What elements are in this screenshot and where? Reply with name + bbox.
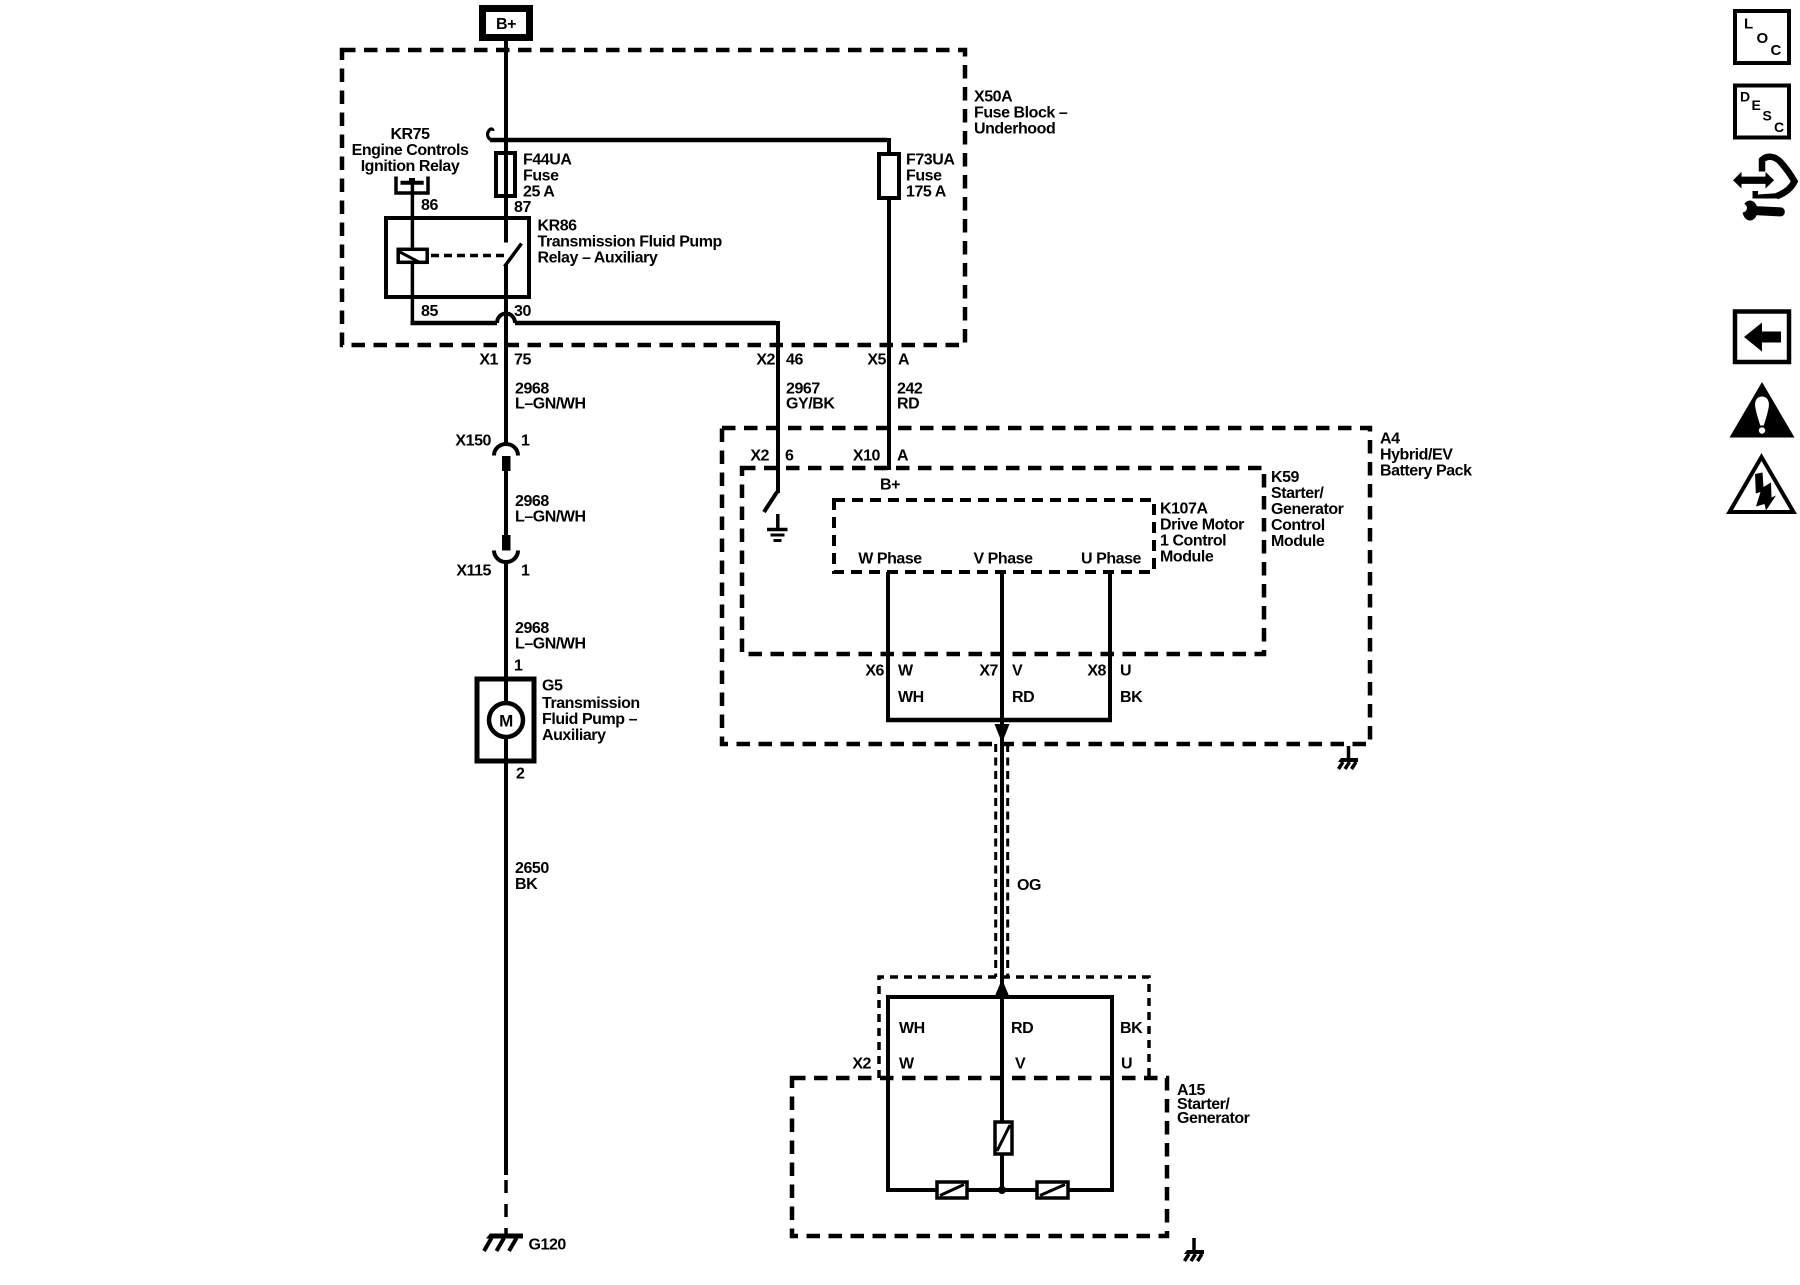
svg-text:Module: Module xyxy=(1160,549,1214,566)
svg-text:KR86: KR86 xyxy=(538,218,578,235)
wire X150 to X115 xyxy=(504,471,508,535)
svg-text:G5: G5 xyxy=(542,678,563,695)
ground switch blade in K59 xyxy=(764,492,777,512)
svg-text:C: C xyxy=(1774,119,1784,135)
arrow up from OG cable xyxy=(995,979,1010,997)
svg-text:L–GN/WH: L–GN/WH xyxy=(515,509,586,526)
svg-text:Fuse: Fuse xyxy=(523,168,559,185)
ground at A4 box xyxy=(1338,746,1358,769)
svg-text:1: 1 xyxy=(521,563,530,580)
svg-text:W: W xyxy=(898,663,914,680)
svg-text:Engine Controls: Engine Controls xyxy=(352,142,469,159)
svg-text:1 Control: 1 Control xyxy=(1160,533,1226,550)
svg-text:B+: B+ xyxy=(496,16,516,33)
svg-text:BK: BK xyxy=(515,876,538,893)
svg-text:M: M xyxy=(499,712,513,731)
connector A15 X2 dashed box xyxy=(879,977,1149,1078)
wire label 2968 L-GN/WH (2) xyxy=(515,493,586,526)
relay KR86 switch blade xyxy=(505,244,522,267)
icon DESC box xyxy=(1735,86,1789,138)
winding W component xyxy=(937,1182,967,1198)
svg-text:U: U xyxy=(1121,1056,1132,1073)
icon LOC box xyxy=(1735,11,1789,63)
svg-text:Battery Pack: Battery Pack xyxy=(1380,463,1472,480)
ground at A15 box xyxy=(1184,1238,1204,1261)
svg-text:U Phase: U Phase xyxy=(1081,551,1142,568)
wire X115 to motor G5 xyxy=(504,563,508,704)
svg-text:Auxiliary: Auxiliary xyxy=(542,727,606,744)
svg-text:BK: BK xyxy=(1120,689,1143,706)
svg-text:X150: X150 xyxy=(455,433,491,450)
wire W phase down xyxy=(886,572,890,722)
svg-text:Transmission: Transmission xyxy=(542,695,640,712)
svg-text:X2: X2 xyxy=(852,1056,871,1073)
svg-text:L–GN/WH: L–GN/WH xyxy=(515,636,586,653)
wire down to fuse F73UA xyxy=(887,138,891,154)
wire label 2967 GY/BK xyxy=(786,381,835,413)
svg-text:V: V xyxy=(1012,663,1023,680)
svg-text:6: 6 xyxy=(785,448,794,465)
connector X115 xyxy=(456,535,530,580)
svg-text:1: 1 xyxy=(521,433,530,450)
generator A15 solid box xyxy=(888,997,1112,1190)
svg-text:Control: Control xyxy=(1271,517,1325,534)
winding V component xyxy=(995,1122,1012,1154)
icon back arrow box xyxy=(1735,312,1789,363)
relay KR86 box xyxy=(386,218,529,297)
svg-text:Module: Module xyxy=(1271,533,1325,550)
svg-text:WH: WH xyxy=(898,689,924,706)
svg-text:Relay – Auxiliary: Relay – Auxiliary xyxy=(538,250,658,267)
connector row X7 V xyxy=(979,663,1023,680)
svg-text:46: 46 xyxy=(786,352,803,369)
connector row X6 W xyxy=(865,663,914,680)
wire label 2650 BK xyxy=(515,860,549,893)
wire U phase down xyxy=(1108,572,1112,722)
svg-text:E: E xyxy=(1752,97,1761,113)
wire label 2968 L-GN/WH (3) xyxy=(515,620,586,653)
icon data link arrows and wrench xyxy=(1733,157,1795,221)
svg-text:RD: RD xyxy=(1011,1020,1033,1037)
node X50A label xyxy=(974,89,1068,138)
connector X150 xyxy=(455,433,530,472)
svg-text:Drive Motor: Drive Motor xyxy=(1160,517,1244,534)
svg-text:Ignition Relay: Ignition Relay xyxy=(361,158,460,175)
svg-text:75: 75 xyxy=(514,352,531,369)
B+ terminal xyxy=(483,9,530,38)
relay KR86 coil-contact dashed link xyxy=(431,254,507,258)
svg-text:A4: A4 xyxy=(1380,431,1400,448)
svg-text:A: A xyxy=(897,448,909,465)
svg-text:X50A: X50A xyxy=(974,89,1013,106)
connector row X2 46 xyxy=(756,352,803,369)
svg-text:Hybrid/EV: Hybrid/EV xyxy=(1380,447,1453,464)
svg-text:Fluid Pump –: Fluid Pump – xyxy=(542,711,638,728)
fuse F44UA xyxy=(496,152,572,201)
wire 30 down from switch xyxy=(504,265,508,445)
motor G5 label xyxy=(542,678,640,745)
wire G5 down xyxy=(504,737,508,1176)
svg-text:GY/BK: GY/BK xyxy=(786,396,835,413)
svg-text:W: W xyxy=(899,1056,915,1073)
module K107A dashed box xyxy=(834,500,1154,572)
svg-text:X5: X5 xyxy=(867,352,886,369)
svg-text:X115: X115 xyxy=(456,563,491,580)
svg-text:30: 30 xyxy=(514,303,531,320)
svg-text:X6: X6 xyxy=(865,663,884,680)
motor G5 circle M xyxy=(489,703,523,737)
battery pack A4 dashed box xyxy=(722,428,1370,744)
svg-text:Transmission Fluid Pump: Transmission Fluid Pump xyxy=(538,234,723,251)
winding U component xyxy=(1037,1182,1068,1198)
svg-text:X1: X1 xyxy=(479,352,498,369)
wire V inside A15 xyxy=(1000,997,1004,1124)
svg-text:C: C xyxy=(1771,42,1782,59)
svg-text:K107A: K107A xyxy=(1160,501,1208,518)
icon electrical hazard triangle xyxy=(1730,457,1794,512)
svg-text:WH: WH xyxy=(899,1020,925,1037)
svg-text:2968: 2968 xyxy=(515,493,549,510)
svg-text:BK: BK xyxy=(1120,1020,1143,1037)
svg-text:U: U xyxy=(1120,663,1131,680)
svg-text:Fuse Block –: Fuse Block – xyxy=(974,105,1068,122)
svg-text:O: O xyxy=(1757,30,1769,47)
svg-text:KR75: KR75 xyxy=(390,126,430,143)
svg-text:L–GN/WH: L–GN/WH xyxy=(515,396,586,413)
svg-text:G120: G120 xyxy=(529,1237,567,1254)
relay KR86 label xyxy=(538,218,723,267)
svg-text:2: 2 xyxy=(516,766,525,783)
wire bus W-V-U join xyxy=(886,718,1112,723)
connector row X2 6 xyxy=(750,448,794,465)
svg-text:B+: B+ xyxy=(880,477,900,494)
junction dot xyxy=(998,1186,1006,1194)
relay KR75 label xyxy=(352,126,469,175)
motor G5 box xyxy=(477,679,534,761)
node A4 label xyxy=(1380,431,1472,480)
svg-text:D: D xyxy=(1740,89,1750,105)
svg-text:RD: RD xyxy=(1012,689,1034,706)
svg-text:X10: X10 xyxy=(853,448,881,465)
arrow down into OG cable xyxy=(995,724,1010,743)
relay KR86 coil xyxy=(398,249,427,262)
ground symbol in K59 xyxy=(767,514,788,541)
connector row X1 75 xyxy=(479,352,531,369)
wire hook at bus left end xyxy=(488,129,497,140)
svg-text:V Phase: V Phase xyxy=(973,551,1033,568)
svg-text:A: A xyxy=(898,352,910,369)
connector row X5 A xyxy=(867,352,910,369)
svg-text:X2: X2 xyxy=(756,352,775,369)
svg-text:RD: RD xyxy=(897,396,919,413)
svg-text:F44UA: F44UA xyxy=(523,152,572,169)
svg-text:86: 86 xyxy=(421,197,438,214)
wire V phase down xyxy=(1000,572,1004,996)
wire label 242 RD xyxy=(897,381,923,413)
cable OG dashed sheath xyxy=(996,744,1008,977)
wire horizontal bus to F73UA xyxy=(490,138,887,143)
icon caution triangle xyxy=(1730,382,1795,438)
generator A15 outer dashed box xyxy=(792,1078,1167,1236)
svg-text:Underhood: Underhood xyxy=(974,121,1055,138)
svg-text:Starter/: Starter/ xyxy=(1271,485,1324,502)
svg-text:W Phase: W Phase xyxy=(858,551,922,568)
wire B+ down to fuse F44UA xyxy=(504,41,508,243)
svg-text:K59: K59 xyxy=(1271,469,1300,486)
svg-text:175 A: 175 A xyxy=(906,184,947,201)
wire coil pin 85 down xyxy=(411,264,415,323)
fuse block X50A dashed box xyxy=(342,50,965,345)
svg-text:1: 1 xyxy=(514,658,523,675)
connector row X8 U xyxy=(1087,663,1131,680)
connector row X10 A xyxy=(853,448,909,465)
svg-text:V: V xyxy=(1015,1056,1026,1073)
svg-text:F73UA: F73UA xyxy=(906,152,955,169)
svg-text:87: 87 xyxy=(514,199,531,216)
relay KR75 contact symbol xyxy=(396,177,428,194)
module K107A label xyxy=(1160,501,1244,566)
svg-text:Fuse: Fuse xyxy=(906,168,942,185)
svg-text:X7: X7 xyxy=(979,663,998,680)
svg-text:2650: 2650 xyxy=(515,860,549,877)
fuse F73UA xyxy=(879,152,955,201)
ground G120 xyxy=(484,1234,566,1254)
svg-text:OG: OG xyxy=(1017,877,1041,894)
module K59 dashed box xyxy=(742,468,1264,654)
svg-text:X2: X2 xyxy=(750,448,769,465)
svg-text:Generator: Generator xyxy=(1177,1110,1250,1127)
svg-text:85: 85 xyxy=(421,303,438,320)
wire X10 to B+ stub xyxy=(887,198,891,470)
svg-text:X8: X8 xyxy=(1087,663,1106,680)
wire KR75 contact to coil pin 86 xyxy=(411,184,415,248)
wire 85 horizontal with hop over 30 wire xyxy=(411,314,777,324)
svg-text:Generator: Generator xyxy=(1271,501,1344,518)
module K59 label xyxy=(1271,469,1344,550)
wire down to X2 46 xyxy=(776,321,780,493)
svg-text:S: S xyxy=(1763,108,1772,124)
wire dashed to G120 xyxy=(504,1180,508,1234)
svg-text:2968: 2968 xyxy=(515,620,549,637)
svg-text:L: L xyxy=(1744,16,1753,33)
wire label 2968 L-GN/WH (1) xyxy=(515,381,586,413)
node A15 label xyxy=(1177,1082,1250,1127)
svg-text:25 A: 25 A xyxy=(523,184,555,201)
connector row X2 W V U xyxy=(852,1056,1132,1073)
